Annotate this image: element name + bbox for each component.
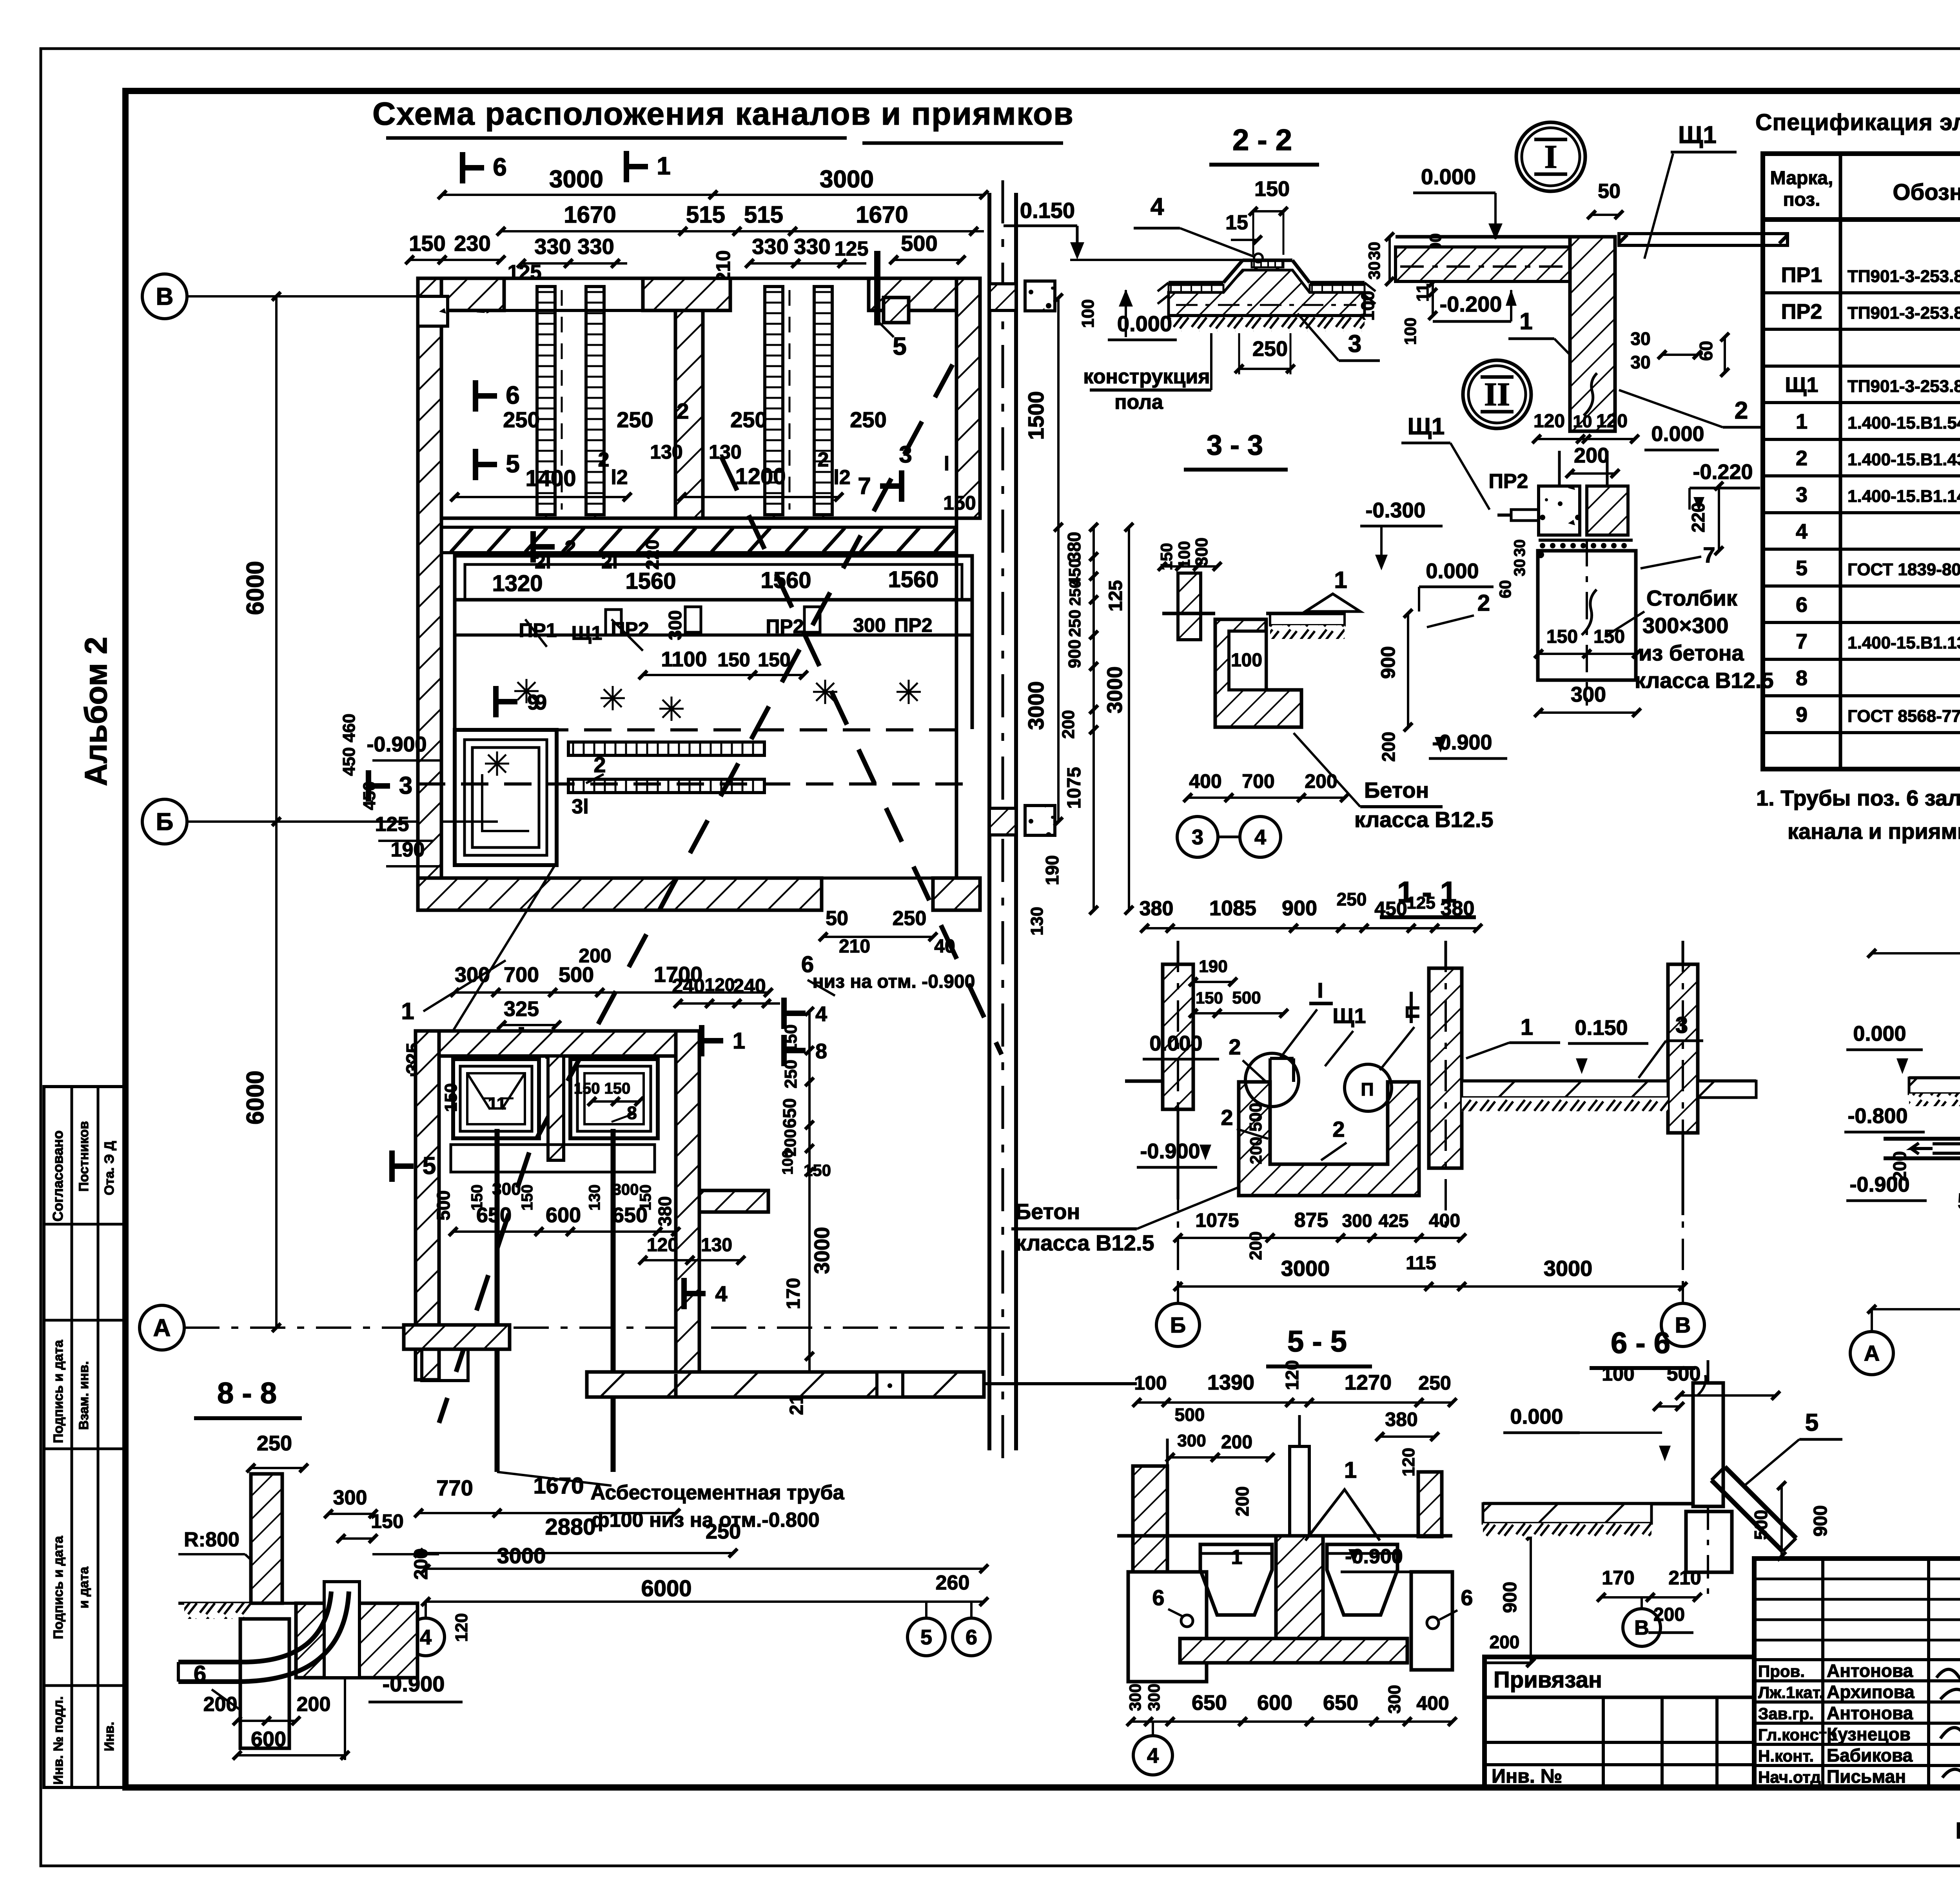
svg-text:170: 170 [1602,1567,1634,1589]
svg-text:120: 120 [1596,411,1628,432]
svg-text:250: 250 [1418,1372,1451,1394]
svg-text:1: 1 [733,1028,745,1054]
svg-text:120: 120 [647,1235,678,1256]
svg-text:300: 300 [1342,1210,1372,1231]
svg-text:425: 425 [1379,1210,1409,1231]
svg-text:150: 150 [519,1185,536,1211]
svg-text:200: 200 [1574,444,1609,467]
svg-text:Марка,: Марка, [1770,168,1833,189]
svg-text:380: 380 [1385,1408,1417,1430]
svg-text:150: 150 [409,231,445,256]
svg-text:2: 2 [593,752,606,777]
svg-text:5: 5 [1958,1189,1960,1214]
hall inner labels [473,380,478,412]
svg-text:8: 8 [627,1103,637,1123]
svg-text:l: l [944,453,949,475]
small pier square 5 [884,298,909,323]
6-6 floor [1483,1502,1693,1506]
svg-text:4: 4 [715,1281,727,1306]
svg-text:115: 115 [1406,1253,1436,1274]
svg-text:250: 250 [257,1432,292,1455]
svg-text:650: 650 [1192,1691,1227,1715]
svg-text:А: А [1864,1341,1880,1366]
svg-text:250: 250 [730,407,767,432]
svg-text:1270: 1270 [1345,1371,1392,1394]
5-5 troughs [1200,1544,1272,1615]
3-3 left wall [1178,573,1201,640]
svg-text:Постников: Постников [76,1121,91,1192]
svg-text:1: 1 [401,998,414,1024]
svg-text:Инв. №: Инв. № [1492,1765,1562,1787]
svg-text:300: 300 [1571,683,1606,706]
svg-text:П: П [1403,1005,1423,1019]
svg-text:0.000: 0.000 [1426,559,1479,583]
svg-text:Пров.: Пров. [1758,1662,1805,1680]
svg-text:3l: 3l [572,795,588,818]
svg-text:1: 1 [1231,1546,1243,1569]
svg-text:I: I [1317,979,1323,1002]
svg-text:Зав.гр.: Зав.гр. [1758,1704,1814,1723]
5-5 pit floor top line [1117,1534,1452,1538]
svg-text:515: 515 [686,201,725,228]
svg-text:190: 190 [1199,957,1227,976]
uzel I wall break squiggle [1584,373,1597,416]
1-1 grid circles [1156,1303,1200,1346]
svg-text:Инв. № подл.: Инв. № подл. [51,1696,66,1785]
svg-text:-0.220: -0.220 [1693,460,1753,484]
4-4 grid circle A [1850,1332,1893,1375]
svg-text:100: 100 [1231,650,1262,671]
svg-text:1100: 1100 [661,648,707,671]
svg-text:5: 5 [920,1626,932,1649]
svg-text:ТП901-3-253.89-КЖ. И.70.040: ТП901-3-253.89-КЖ. И.70.040 [1847,377,1960,396]
asbestos pipes (bold verticals) [495,1129,500,1472]
wall between pits [548,1056,564,1160]
svg-text:3000: 3000 [549,166,603,193]
svg-text:3: 3 [1796,483,1808,507]
svg-text:-0.300: -0.300 [1365,499,1425,522]
left margin stamp boxes [44,1087,125,1787]
svg-text:6: 6 [801,952,814,977]
svg-text:2: 2 [1477,590,1490,616]
svg-text:190: 190 [1042,855,1062,885]
svg-text:класса В12.5: класса В12.5 [1635,668,1774,693]
svg-text:300: 300 [1145,1684,1163,1711]
svg-text:Щ1: Щ1 [572,622,603,644]
svg-text:200: 200 [1378,732,1399,762]
svg-text:150: 150 [441,1083,461,1112]
svg-text:200: 200 [579,945,611,967]
1-1 mid wall [1429,968,1462,1168]
5-5 center pier [1276,1536,1323,1639]
svg-text:200: 200 [1221,1432,1252,1453]
bottom wall upper block [418,878,822,910]
A axis lower wall line [984,1382,1137,1385]
svg-text:400: 400 [1189,770,1221,792]
svg-text:II: II [1484,376,1510,413]
svg-text:500: 500 [1751,1510,1771,1540]
svg-text:низ на отм. -0.900: низ на отм. -0.900 [813,971,975,992]
svg-text:900: 900 [1377,646,1399,679]
svg-text:380: 380 [655,1196,675,1227]
svg-text:ГОСТ 1839-80: ГОСТ 1839-80 [1847,560,1960,579]
left pit [455,730,557,865]
plan left wall [418,278,441,910]
svg-text:250: 250 [893,907,927,930]
svg-text:500: 500 [901,231,937,256]
right-side dim chain of lower block [808,1011,811,1372]
grid circle B [142,799,187,844]
svg-text:380: 380 [1064,532,1084,562]
svg-text:125: 125 [508,261,542,284]
dashed boundary lines [455,728,972,731]
svg-text:Кузнецов: Кузнецов [1827,1724,1911,1744]
svg-text:100: 100 [1602,1363,1634,1385]
svg-text:1320: 1320 [492,571,543,596]
svg-text:7: 7 [858,473,871,499]
svg-text:0.150: 0.150 [1020,198,1075,223]
svg-text:200: 200 [1889,1151,1910,1181]
svg-text:Лж.1кат.: Лж.1кат. [1758,1683,1824,1702]
svg-text:0.000: 0.000 [1853,1022,1906,1045]
1-1 right wall [1668,964,1698,1133]
svg-text:-0.900: -0.900 [367,733,426,756]
svg-text:8: 8 [815,1040,827,1063]
svg-text:ПР2: ПР2 [894,614,932,636]
svg-text:30: 30 [1511,539,1528,557]
svg-text:1.400-15.В1.430: 1.400-15.В1.430 [1847,450,1960,469]
svg-text:240: 240 [733,975,766,997]
2-2 anchor bolts [1254,267,1258,301]
svg-text:600: 600 [1257,1691,1292,1715]
svg-text:Письман: Письман [1827,1766,1906,1787]
svg-text:5: 5 [423,1152,436,1179]
svg-text:150: 150 [943,492,976,514]
svg-text:300: 300 [333,1486,367,1509]
svg-text:2880: 2880 [545,1514,595,1540]
svg-text:П: П [1361,1079,1374,1100]
svg-text:11: 11 [488,1094,506,1113]
svg-text:5: 5 [893,332,907,360]
svg-text:300×300: 300×300 [1642,613,1729,638]
svg-text:4: 4 [420,1626,432,1649]
6-6 lower pier [1686,1512,1732,1572]
2-2 floor hump [1169,281,1223,285]
svg-text:130: 130 [701,1235,732,1256]
section 7 flags right [899,470,904,502]
svg-text:ТП901-3-253.89-КЖ.И. 25.000.: ТП901-3-253.89-КЖ.И. 25.000. [1847,303,1960,323]
svg-text:-0.800: -0.800 [1847,1104,1907,1128]
svg-text:500: 500 [433,1190,454,1221]
svg-text:6000: 6000 [641,1576,691,1601]
svg-text:Обозначение: Обозначение [1893,180,1960,205]
1-1 channel small walls [1269,1058,1272,1082]
signature table [1754,1559,1960,1787]
svg-text:150: 150 [1254,177,1290,201]
svg-text:1390: 1390 [1207,1371,1254,1394]
svg-text:-0.900: -0.900 [1140,1140,1200,1163]
svg-text:Щ1: Щ1 [1678,122,1717,149]
svg-text:200: 200 [1247,1137,1265,1164]
svg-text:900: 900 [1500,1582,1521,1613]
uzel I circle [1516,122,1585,191]
1-1 floor left [1125,1080,1163,1083]
section flags under plan [519,1027,524,1058]
svg-text:300: 300 [853,614,886,636]
svg-text:6: 6 [965,1626,977,1649]
svg-text:поз.: поз. [1783,189,1820,210]
svg-text:125: 125 [835,238,869,260]
svg-text:200: 200 [1059,710,1078,739]
svg-text:150: 150 [781,1024,800,1053]
svg-text:Антонова: Антонова [1827,1660,1913,1681]
svg-text:500: 500 [559,963,594,987]
5-5 left wall [1133,1466,1167,1572]
ladder strip at 1370 [537,287,555,515]
5-5 right wall [1418,1472,1442,1537]
T pier stem [675,310,703,518]
svg-text:380: 380 [1441,897,1475,920]
svg-text:9: 9 [535,691,547,714]
lower block top wall [439,1031,676,1056]
svg-text:Подпись и дата: Подпись и дата [51,1339,66,1443]
dash centerlines between ladders [561,290,563,510]
svg-text:125: 125 [1406,893,1435,913]
uzel II plate [1511,510,1539,521]
svg-text:100: 100 [1357,291,1378,321]
svg-text:2: 2 [818,448,829,471]
svg-text:500: 500 [1246,1103,1265,1131]
horizontal ladders [568,742,764,755]
svg-text:класса В12.5: класса В12.5 [1354,807,1494,832]
svg-text:3 - 3: 3 - 3 [1207,430,1263,461]
svg-text:3000: 3000 [810,1227,834,1274]
svg-text:7: 7 [1796,630,1808,653]
svg-text:3: 3 [1348,330,1361,357]
ladder strip at 1951 [765,287,783,515]
svg-text:Н.конт.: Н.конт. [1758,1747,1814,1765]
2-2 break marks [1158,283,1169,304]
svg-text:1: 1 [657,152,671,180]
5-5 bottom slab [1180,1639,1407,1663]
svg-text:3000: 3000 [1103,666,1127,713]
svg-text:3: 3 [399,772,412,799]
svg-text:450: 450 [1374,898,1407,920]
svg-text:300: 300 [455,963,490,987]
3-3 pit body [1215,619,1301,727]
svg-text:10: 10 [1573,412,1592,431]
svg-text:120: 120 [1399,1448,1418,1476]
svg-text:ПР2: ПР2 [1781,300,1822,323]
svg-text:230: 230 [454,231,490,256]
svg-text:Нач.отд: Нач.отд [1758,1768,1821,1786]
svg-text:330: 330 [794,234,830,259]
svg-text:6: 6 [493,153,507,181]
svg-text:6: 6 [506,381,520,409]
signatures squiggles [1936,1669,1960,1779]
svg-text:4: 4 [1147,1744,1159,1767]
svg-text:150: 150 [1546,626,1578,647]
svg-text:2: 2 [1229,1034,1241,1059]
svg-text:170: 170 [783,1278,804,1309]
right dim chain upper [1057,298,1060,822]
svg-text:В: В [1634,1617,1649,1639]
svg-text:50: 50 [826,907,848,930]
svg-text:875: 875 [1294,1209,1328,1232]
svg-text:Б: Б [156,809,174,836]
svg-text:I: I [1544,138,1557,175]
svg-text:4: 4 [815,1002,827,1026]
1-1 pit U shape [1239,1082,1419,1196]
svg-text:515: 515 [744,201,783,228]
svg-text:2: 2 [1735,397,1748,424]
uzel I wall [1570,237,1615,431]
svg-text:Б: Б [1170,1313,1186,1337]
svg-text:30: 30 [1511,559,1528,577]
svg-text:1: 1 [1519,308,1532,334]
svg-text:150: 150 [1196,989,1223,1007]
privyazan box [1485,1657,1754,1787]
svg-text:900: 900 [1810,1505,1831,1537]
ladder strip at 1495 [586,287,604,515]
axis wall right (double line) [987,193,991,1450]
svg-text:120: 120 [705,974,735,995]
svg-text:200: 200 [1490,1632,1520,1652]
svg-text:380: 380 [1140,897,1174,920]
1-1 floor right span [1462,1080,1668,1083]
svg-text:30: 30 [1630,352,1650,372]
svg-text:Бетон: Бетон [1364,778,1429,802]
svg-text:500: 500 [1175,1404,1205,1425]
svg-text:3000: 3000 [1544,1256,1593,1281]
1-1 left wall [1163,964,1193,1109]
svg-text:300: 300 [1126,1684,1144,1711]
dashed rect below pits [451,1145,655,1172]
svg-text:2: 2 [677,399,689,423]
uzel II circle [1463,360,1531,428]
svg-text:1200: 1200 [735,464,786,489]
svg-text:250: 250 [1067,580,1084,606]
uzel I slab [1396,235,1599,239]
svg-text:5: 5 [1805,1409,1818,1436]
svg-text:Щ1: Щ1 [1408,413,1445,439]
right wall protrusion [699,1190,768,1212]
supports row (PR labels) [455,633,972,637]
svg-text:150: 150 [1593,626,1625,647]
svg-text:Щ1: Щ1 [1785,373,1818,397]
grid circle A [140,1305,184,1350]
svg-text:50: 50 [1598,180,1621,203]
svg-text:0.000: 0.000 [1421,164,1476,189]
channel run [455,556,972,600]
svg-text:5 - 5: 5 - 5 [1287,1325,1347,1358]
svg-text:300: 300 [613,1181,639,1198]
svg-text:1075: 1075 [1064,767,1085,809]
1-1 column centerlines [1177,941,1179,1287]
svg-text:1.400-15.В1.130-56: 1.400-15.В1.130-56 [1847,633,1960,653]
svg-text:60: 60 [1496,580,1514,599]
svg-text:1400: 1400 [525,466,576,491]
lower block right wall [676,1031,699,1374]
svg-text:6: 6 [1461,1585,1473,1610]
svg-text:150 150: 150 150 [574,1080,631,1097]
hatch cross marks [514,679,539,703]
svg-text:0.000: 0.000 [1651,422,1704,446]
svg-text:150: 150 [637,1185,654,1211]
svg-text:Антонова: Антонова [1827,1703,1913,1723]
svg-text:130: 130 [650,441,682,463]
svg-text:125: 125 [1105,580,1126,611]
svg-text:700: 700 [504,963,539,987]
svg-text:Архипова: Архипова [1827,1682,1915,1702]
svg-text:6 - 6: 6 - 6 [1611,1326,1670,1360]
svg-text:15: 15 [1225,211,1248,234]
svg-text:120: 120 [1282,1360,1302,1390]
plan right wall [956,278,980,518]
svg-text:3000: 3000 [1024,681,1048,730]
svg-text:1.400-15.В1.540-09: 1.400-15.В1.540-09 [1847,414,1960,433]
svg-text:-0.900: -0.900 [383,1671,445,1696]
svg-text:4: 4 [1151,193,1164,220]
svg-text:Асбестоцементная труба: Асбестоцементная труба [590,1481,844,1504]
svg-text:250: 250 [503,407,539,432]
svg-text:200: 200 [411,1548,432,1580]
svg-text:400: 400 [1416,1692,1449,1714]
svg-text:100: 100 [1078,299,1098,328]
svg-text:650: 650 [1323,1691,1358,1715]
4-4 floor [1909,1076,1960,1080]
svg-text:210: 210 [839,936,870,957]
svg-text:250: 250 [1252,337,1288,361]
svg-text:250: 250 [1337,889,1367,909]
svg-text:330: 330 [752,234,788,259]
svg-text:300: 300 [665,610,685,641]
svg-text:250: 250 [850,407,886,432]
svg-text:3: 3 [1192,826,1203,849]
svg-text:Взам. инв.: Взам. инв. [76,1361,91,1430]
hall bottom line [441,517,956,520]
top dimension chain 3000+3000 [442,194,984,196]
8-8 pit block [296,1603,417,1678]
svg-text:Подпись и дата: Подпись и дата [51,1535,66,1639]
svg-text:30: 30 [1630,328,1650,349]
svg-text:0.150: 0.150 [1575,1016,1628,1040]
grid circle V [142,274,187,319]
6-6 diagonal pipe [1725,1467,1796,1538]
6-6 post [1693,1383,1723,1506]
svg-text:200: 200 [1232,1486,1252,1517]
8-8 curved pipe [178,1591,331,1662]
8-8 wall above [251,1474,282,1603]
svg-text:210: 210 [1668,1567,1701,1589]
svg-text:6: 6 [1796,593,1808,617]
bottom grid circles [407,1618,445,1656]
8-8 floor lines [178,1602,251,1605]
svg-text:Столбик: Столбик [1646,586,1738,610]
svg-text:1075: 1075 [1195,1209,1239,1231]
lower block bottom walls [404,1325,510,1349]
svg-text:1670: 1670 [564,201,616,228]
floor slab band with sparse hatch [441,527,956,553]
svg-text:из бетона: из бетона [1639,641,1744,665]
svg-text:Бабикова: Бабикова [1827,1745,1913,1766]
top wall T pier [643,278,730,310]
svg-text:ТП901-3-253.89-КЖ.И.24.000.: ТП901-3-253.89-КЖ.И.24.000. [1847,267,1960,286]
uzel II bottom post [1538,551,1636,680]
svg-text:330: 330 [534,234,571,259]
svg-text:500: 500 [1232,988,1261,1007]
svg-text:1: 1 [1521,1014,1533,1040]
